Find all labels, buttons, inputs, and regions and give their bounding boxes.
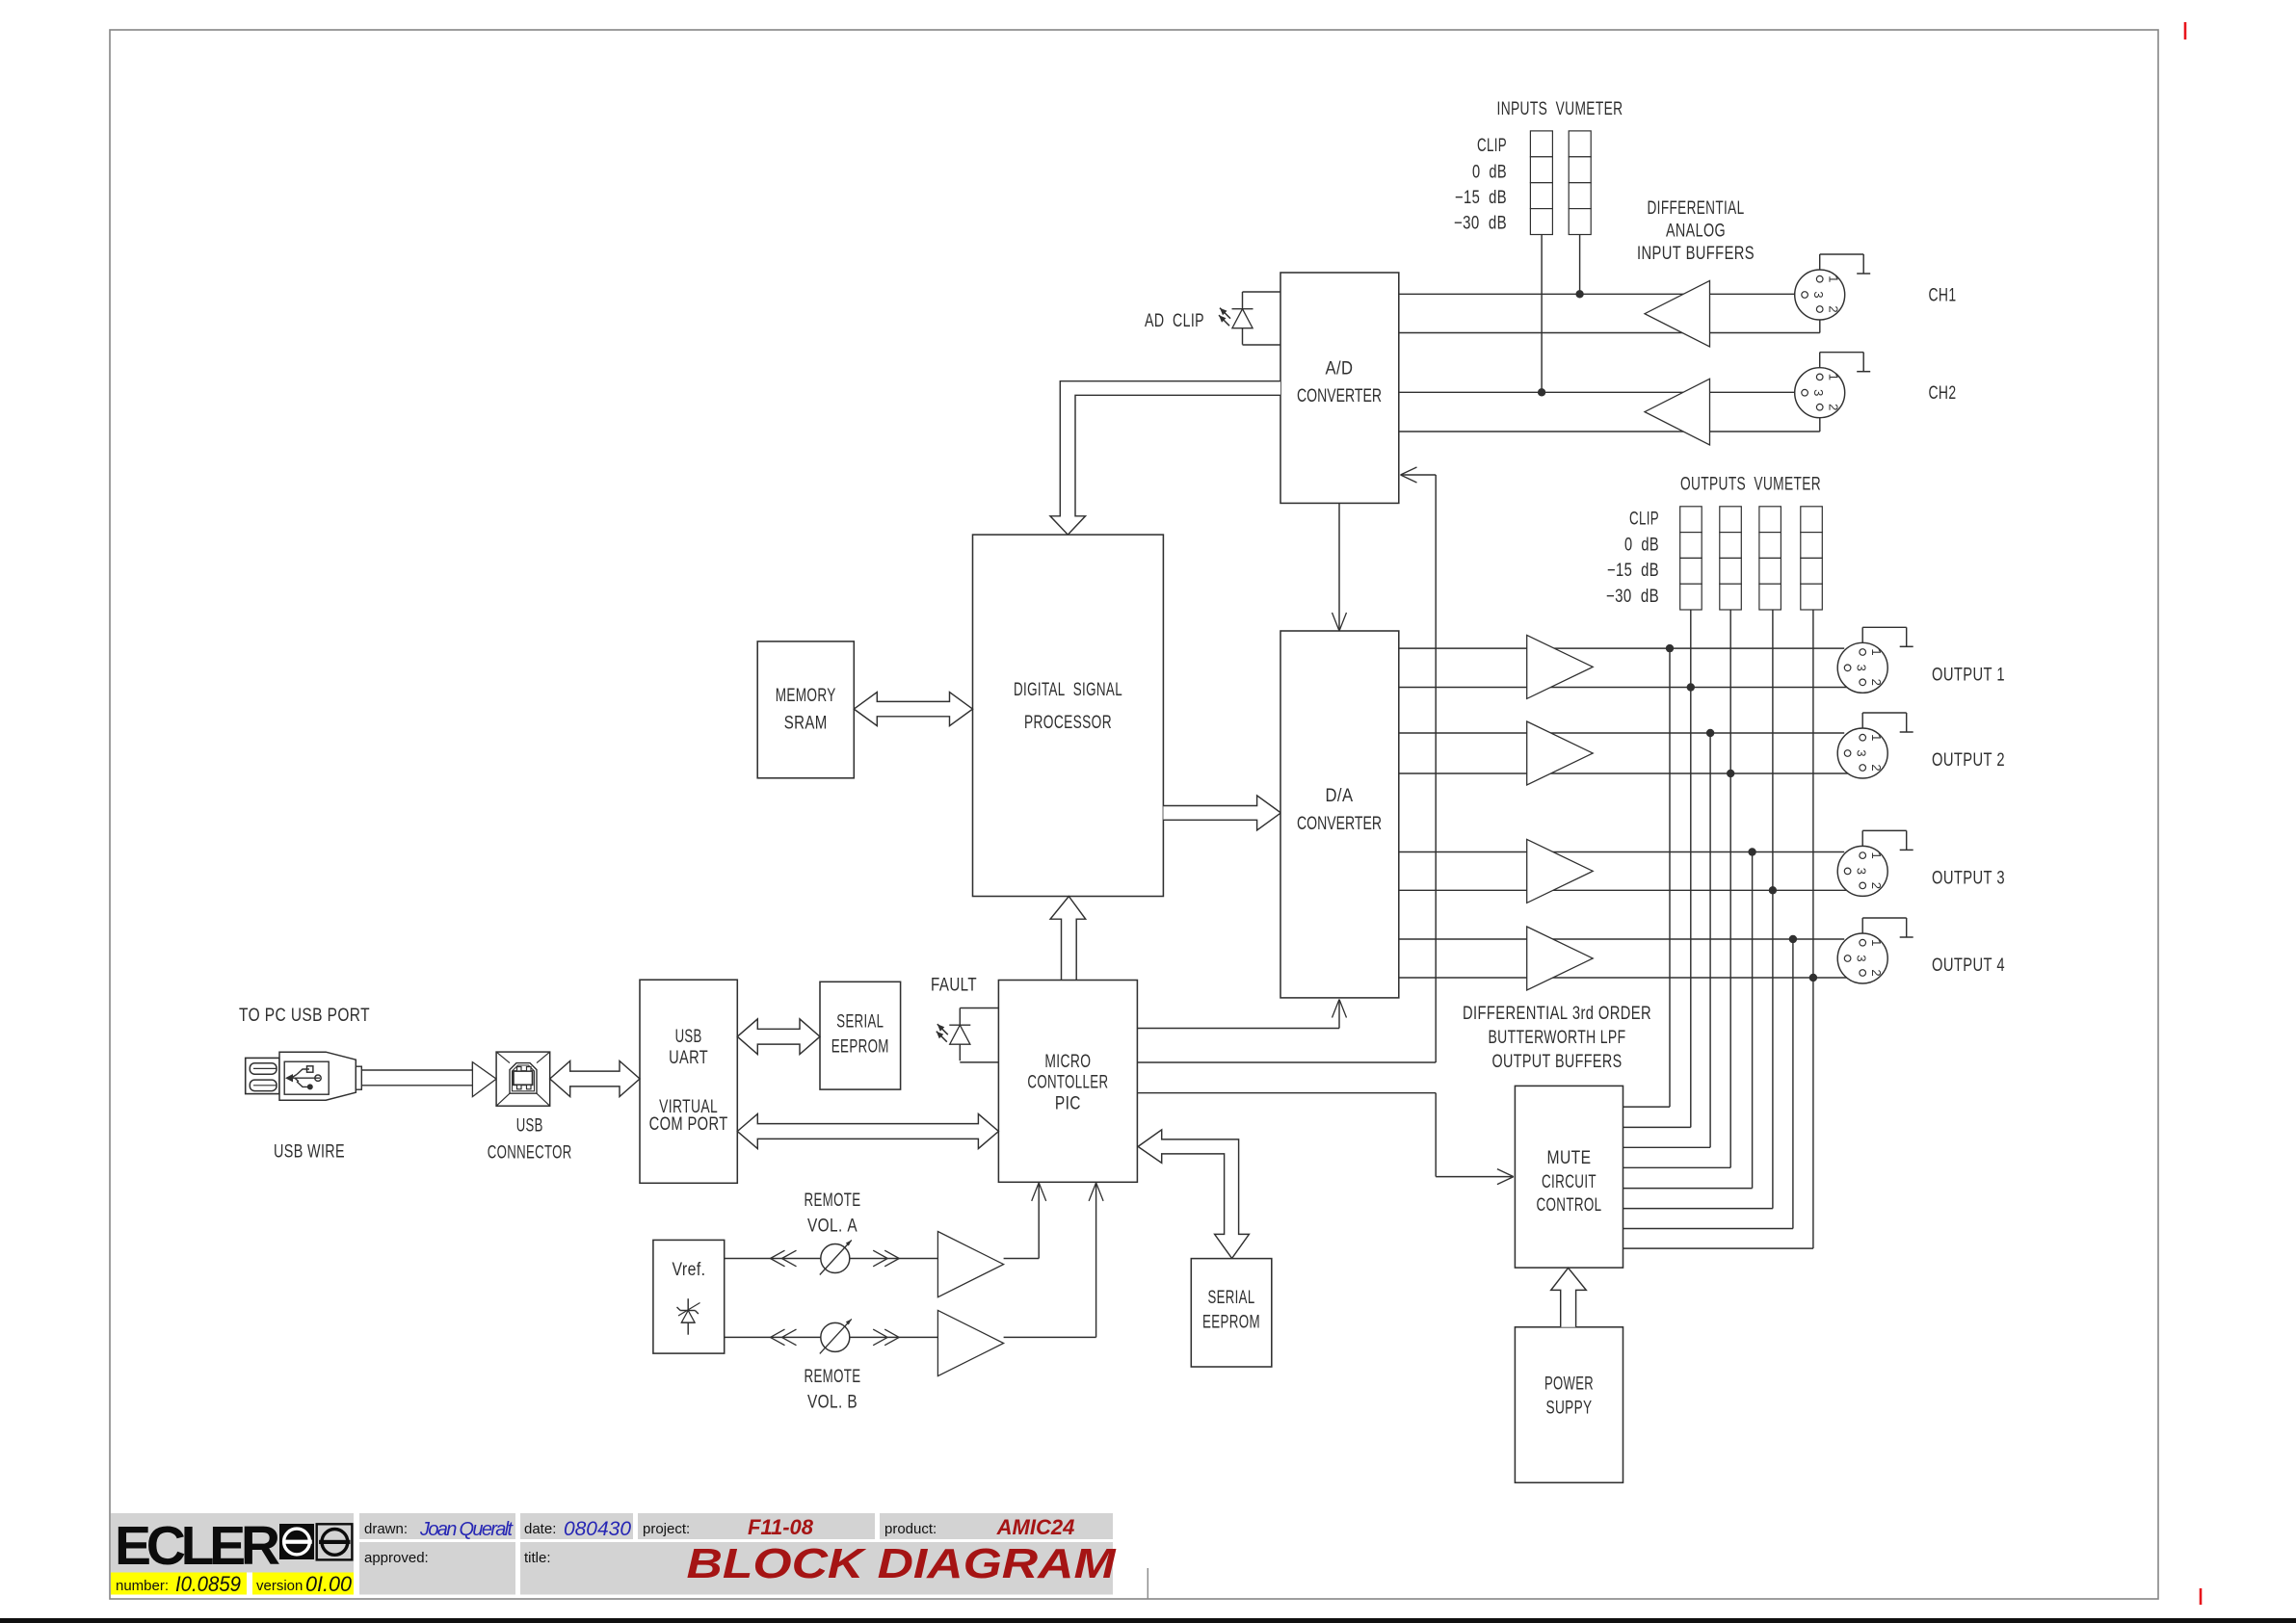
XLR connector OUTPUT 4 <box>1837 933 1887 983</box>
label OUTPUT 2 <box>1932 750 2005 771</box>
svg-text:OUTPUTS VUMETER: OUTPUTS VUMETER <box>1680 475 1821 495</box>
svg-text:1: 1 <box>1869 648 1884 655</box>
title block product cell <box>880 1513 1113 1539</box>
wire micro to A/D control <box>1137 1061 1436 1063</box>
XLR connector OUTPUT 1 <box>1837 642 1887 693</box>
svg-text:OUTPUT 1: OUTPUT 1 <box>1932 666 2005 686</box>
label FAULT <box>931 976 977 996</box>
svg-text:I0.0859: I0.0859 <box>175 1572 241 1596</box>
label REMOTE VOL. A <box>805 1191 861 1237</box>
XLR connector CH1 <box>1795 270 1845 320</box>
wire vumeter bar 2 down to mute block <box>1623 610 1731 1167</box>
wire CH1- (XLR pin2 to A/D) <box>1399 313 1820 333</box>
svg-text:2: 2 <box>1869 969 1884 976</box>
op-amp output buffer 4 <box>1527 927 1594 990</box>
svg-text:MUTE: MUTE <box>1547 1148 1592 1168</box>
svg-text:CLIP: CLIP <box>1477 136 1507 156</box>
USB B connector symbol <box>496 1052 550 1106</box>
registration mark bottom right (red) <box>2200 1588 2203 1605</box>
label OUTPUTS VUMETER <box>1680 475 1821 495</box>
svg-text:1: 1 <box>1869 734 1884 741</box>
svg-text:BLOCK DIAGRAM: BLOCK DIAGRAM <box>687 1540 1118 1587</box>
title block title cell <box>520 1540 1117 1595</box>
bus arrow power supply to mute (hollow up) <box>1551 1268 1587 1327</box>
svg-text:CH1: CH1 <box>1929 286 1957 306</box>
fold mark tick below title block <box>1147 1568 1148 1599</box>
svg-text:D/A: D/A <box>1326 786 1354 806</box>
junction node OUT2- vumeter tap <box>1727 770 1734 777</box>
svg-text:POWER: POWER <box>1544 1374 1594 1395</box>
wire mute tap 2 down to mute block <box>1623 733 1711 1147</box>
svg-text:CONNECTOR: CONNECTOR <box>488 1142 572 1163</box>
svg-text:VOL. A: VOL. A <box>807 1217 858 1237</box>
svg-text:CONVERTER: CONVERTER <box>1297 386 1382 406</box>
junction node OUT3+ mute tap <box>1748 848 1755 855</box>
wire OUT1+ (D/A to XLR pin3) <box>1399 647 1844 649</box>
svg-text:ECLER: ECLER <box>115 1515 280 1577</box>
wire OUT3+ (D/A to XLR pin3) <box>1399 851 1844 853</box>
bus arrow UART to serial EEPROM (double) <box>737 1019 820 1055</box>
wire A/D to D/A <box>1333 503 1347 631</box>
svg-text:REMOTE: REMOTE <box>805 1367 861 1387</box>
potentiometer remote vol B <box>820 1319 852 1353</box>
svg-text:title:: title: <box>524 1550 551 1566</box>
svg-text:SUPPY: SUPPY <box>1546 1399 1593 1419</box>
block A/D converter <box>1280 273 1399 503</box>
black strip at bottom edge <box>0 1618 2296 1623</box>
label OUTPUT 3 <box>1932 869 2005 889</box>
op-amp output buffer 1 <box>1527 635 1594 698</box>
junction node OUT4- vumeter tap <box>1809 974 1817 982</box>
ground OUTPUT 1 <box>1862 627 1913 646</box>
svg-text:OUTPUT BUFFERS: OUTPUT BUFFERS <box>1492 1052 1623 1072</box>
label CLIP (outputs) <box>1629 510 1659 530</box>
svg-text:date:: date: <box>524 1521 556 1537</box>
svg-text:1: 1 <box>1869 939 1884 946</box>
svg-text:VOL. B: VOL. B <box>807 1393 858 1413</box>
registration mark top right (red) <box>2184 22 2187 39</box>
bus arrow A/D to DSP (hollow elbow) <box>1050 381 1280 535</box>
svg-text:USB: USB <box>675 1027 702 1047</box>
svg-text:USB WIRE: USB WIRE <box>274 1141 345 1162</box>
svg-text:080430: 080430 <box>564 1518 631 1540</box>
title block project cell <box>638 1513 875 1539</box>
svg-text:2: 2 <box>1869 764 1884 771</box>
svg-text:MICRO: MICRO <box>1044 1052 1091 1072</box>
bus arrow virtual COM port to micro (double) <box>737 1114 998 1149</box>
svg-text:3: 3 <box>1855 665 1869 671</box>
svg-text:INPUT BUFFERS: INPUT BUFFERS <box>1637 244 1755 264</box>
block digital signal processor <box>973 535 1164 896</box>
label -30 dB (outputs) <box>1606 587 1659 607</box>
wire OUT1- (D/A to XLR pin2) <box>1399 686 1863 688</box>
label OUTPUT 1 <box>1932 666 2005 686</box>
wire micro to D/A (arrow into bottom) <box>1137 1000 1346 1029</box>
svg-text:OUTPUT 2: OUTPUT 2 <box>1932 750 2005 771</box>
chevrons wire B left <box>771 1329 797 1346</box>
ground OUTPUT 4 <box>1862 918 1913 937</box>
svg-text:BUTTERWORTH LPF: BUTTERWORTH LPF <box>1489 1028 1626 1048</box>
svg-text:DIFFERENTIAL 3rd ORDER: DIFFERENTIAL 3rd ORDER <box>1463 1004 1651 1024</box>
svg-text:DIFFERENTIAL: DIFFERENTIAL <box>1648 198 1745 219</box>
USB A plug (connector drawing) <box>246 1052 362 1100</box>
svg-text:drawn:: drawn: <box>364 1521 408 1537</box>
svg-text:FAULT: FAULT <box>931 976 977 996</box>
chevrons wire A right <box>873 1250 899 1267</box>
ground OUTPUT 2 <box>1862 713 1913 732</box>
label AD CLIP <box>1145 311 1204 331</box>
svg-text:2: 2 <box>1827 404 1841 410</box>
svg-text:3: 3 <box>1811 389 1826 396</box>
svg-text:version: version <box>256 1578 303 1594</box>
junction node OUT1+ mute tap <box>1666 644 1674 652</box>
bus arrow USB connector to UART (double) <box>550 1061 640 1097</box>
wire mute tap 4 down to mute block <box>1623 939 1793 1229</box>
potentiometer remote vol A <box>820 1241 852 1275</box>
svg-text:CONTOLLER: CONTOLLER <box>1027 1073 1108 1093</box>
svg-text:project:: project: <box>643 1521 690 1537</box>
svg-text:PIC: PIC <box>1055 1093 1081 1113</box>
svg-text:EEPROM: EEPROM <box>1202 1313 1260 1333</box>
title block approved cell <box>359 1542 515 1595</box>
wire Vref to amp A <box>725 1258 938 1260</box>
wire vumeter bar 1 down to mute block <box>1623 610 1691 1127</box>
svg-text:2: 2 <box>1869 679 1884 686</box>
wire amp B to micro <box>1004 1183 1104 1338</box>
wire OUT4+ (D/A to XLR pin3) <box>1399 938 1844 940</box>
svg-text:PROCESSOR: PROCESSOR <box>1024 713 1112 733</box>
label CH2 <box>1929 383 1957 404</box>
svg-text:2: 2 <box>1869 882 1884 889</box>
svg-text:F11-08: F11-08 <box>748 1515 814 1539</box>
wire micro to mute control <box>1137 1093 1514 1185</box>
svg-text:SRAM: SRAM <box>784 713 828 733</box>
block D/A converter <box>1280 631 1399 998</box>
label CH1 <box>1929 286 1957 306</box>
vumeter bar output 2 <box>1720 507 1742 610</box>
svg-text:Joan Queralt: Joan Queralt <box>419 1519 514 1540</box>
XLR connector CH2 <box>1795 368 1845 418</box>
svg-text:0 dB: 0 dB <box>1472 162 1507 182</box>
wire vumeter bar 4 down to mute block <box>1623 610 1813 1248</box>
title block version cell (yellow) <box>252 1572 354 1596</box>
USB cable (to connector, hollow arrow) <box>361 1062 496 1097</box>
wire OUT3- (D/A to XLR pin2) <box>1399 889 1863 891</box>
label TO PC USB PORT <box>239 1006 370 1026</box>
label 0 dB (outputs) <box>1624 535 1659 555</box>
svg-text:0 dB: 0 dB <box>1624 535 1659 555</box>
svg-text:−15 dB: −15 dB <box>1607 561 1659 581</box>
svg-text:3: 3 <box>1855 868 1869 875</box>
LED FAULT with bracket <box>937 1008 999 1062</box>
wire amp A to micro <box>1004 1183 1046 1259</box>
block USB UART virtual COM port <box>640 980 737 1183</box>
svg-text:UART: UART <box>669 1048 708 1068</box>
svg-text:DIGITAL SIGNAL: DIGITAL SIGNAL <box>1014 680 1122 700</box>
svg-text:USB: USB <box>516 1115 543 1136</box>
zener diode Vref <box>653 1240 725 1353</box>
svg-text:3: 3 <box>1855 955 1869 961</box>
label USB CONNECTOR <box>488 1115 572 1163</box>
label DIFFERENTIAL ANALOG INPUT BUFFERS <box>1637 198 1755 264</box>
svg-text:product:: product: <box>884 1521 937 1537</box>
svg-text:3: 3 <box>1855 749 1869 756</box>
op-amp output buffer 3 <box>1527 839 1594 903</box>
svg-text:CIRCUIT: CIRCUIT <box>1542 1172 1597 1192</box>
ground OUTPUT 3 <box>1862 830 1913 850</box>
vumeter bar input 1 <box>1530 131 1552 235</box>
svg-text:−30 dB: −30 dB <box>1454 213 1507 233</box>
op-amp input buffer CH2 <box>1645 379 1710 445</box>
svg-text:COM PORT: COM PORT <box>649 1114 728 1135</box>
ground CH2 <box>1820 353 1871 372</box>
label USB WIRE <box>274 1141 345 1162</box>
wire OUT2+ (D/A to XLR pin3) <box>1399 732 1844 734</box>
svg-text:SERIAL: SERIAL <box>836 1011 884 1032</box>
title block number cell (yellow) <box>111 1572 247 1596</box>
op-amp remote A <box>937 1232 1003 1297</box>
label OUTPUT 4 <box>1932 955 2005 976</box>
svg-text:Vref.: Vref. <box>673 1260 706 1280</box>
title block drawn cell <box>359 1513 515 1540</box>
title block date cell <box>520 1513 633 1540</box>
svg-text:AD CLIP: AD CLIP <box>1145 311 1204 331</box>
wire vumeter tap to CH1+ <box>1575 234 1583 298</box>
op-amp remote B <box>937 1310 1003 1375</box>
label INPUTS VUMETER <box>1497 99 1623 119</box>
junction node OUT2+ mute tap <box>1706 729 1714 737</box>
wire CH1+ (XLR pin3 to A/D) <box>1399 293 1802 295</box>
wire CH2- (XLR pin2 to A/D) <box>1399 410 1820 432</box>
wire OUT2- (D/A to XLR pin2) <box>1399 771 1863 773</box>
block serial EEPROM 2 <box>1191 1259 1272 1367</box>
bus arrow micro to DSP (hollow up) <box>1050 897 1086 981</box>
svg-text:A/D: A/D <box>1326 359 1354 380</box>
XLR connector OUTPUT 2 <box>1837 728 1887 778</box>
junction node OUT4+ mute tap <box>1789 935 1797 943</box>
junction node OUT3- vumeter tap <box>1769 886 1777 894</box>
svg-text:MEMORY: MEMORY <box>776 686 836 706</box>
svg-text:REMOTE: REMOTE <box>805 1191 861 1211</box>
junction node OUT1- vumeter tap <box>1687 683 1695 691</box>
bus arrow micro to serial EEPROM 2 (hollow elbow) <box>1138 1130 1249 1259</box>
wire Vref to amp B <box>725 1336 938 1338</box>
svg-text:−15 dB: −15 dB <box>1455 188 1507 208</box>
label REMOTE VOL. B <box>805 1367 861 1413</box>
svg-text:CLIP: CLIP <box>1629 510 1659 530</box>
bus arrow DSP to D/A <box>1163 796 1280 830</box>
svg-text:approved:: approved: <box>364 1550 429 1566</box>
label -15 dB (inputs) <box>1455 188 1507 208</box>
svg-text:EEPROM: EEPROM <box>831 1036 889 1057</box>
svg-text:SERIAL: SERIAL <box>1208 1288 1255 1308</box>
wire vumeter bar 3 down to mute block <box>1623 610 1773 1209</box>
svg-text:CONVERTER: CONVERTER <box>1297 814 1382 834</box>
svg-text:TO PC USB PORT: TO PC USB PORT <box>239 1006 370 1026</box>
svg-text:1: 1 <box>1869 851 1884 858</box>
label DIFFERENTIAL 3rd ORDER BUTTERWORTH LPF OUTPUT BUFFERS <box>1463 1004 1651 1072</box>
vumeter bar input 2 <box>1569 131 1591 235</box>
wire mute tap 1 down to mute block <box>1623 648 1671 1107</box>
svg-text:3: 3 <box>1811 291 1826 298</box>
block power supply <box>1515 1327 1623 1483</box>
XLR connector OUTPUT 3 <box>1837 846 1887 896</box>
block memory SRAM <box>757 641 854 778</box>
svg-text:OUTPUT 3: OUTPUT 3 <box>1932 869 2005 889</box>
wire vumeter tap to CH2+ <box>1538 234 1545 396</box>
label -30 dB (inputs) <box>1454 213 1507 233</box>
ground CH1 <box>1820 254 1871 274</box>
wire micro to A/D control (arrow into right edge) <box>1401 467 1437 1062</box>
wire mute tap 3 down to mute block <box>1623 852 1753 1189</box>
svg-text:INPUTS VUMETER: INPUTS VUMETER <box>1497 99 1623 119</box>
svg-text:0I.00: 0I.00 <box>305 1572 353 1596</box>
vumeter bar output 1 <box>1680 507 1702 610</box>
svg-text:AMIC24: AMIC24 <box>996 1515 1075 1539</box>
title block ECLER logo cell <box>111 1513 354 1577</box>
vumeter bar output 3 <box>1759 507 1781 610</box>
svg-text:2: 2 <box>1827 305 1841 312</box>
block micro controller PIC <box>998 981 1137 1183</box>
wire CH2+ (XLR pin3 to A/D) <box>1399 391 1802 393</box>
svg-text:CH2: CH2 <box>1929 383 1957 404</box>
chevrons wire B right <box>873 1329 899 1346</box>
LED AD CLIP with bracket <box>1219 292 1280 345</box>
svg-text:number:: number: <box>116 1578 169 1594</box>
svg-text:1: 1 <box>1827 275 1841 282</box>
vumeter bar output 4 <box>1801 507 1823 610</box>
svg-text:1: 1 <box>1827 374 1841 380</box>
svg-text:CONTROL: CONTROL <box>1537 1195 1602 1216</box>
wire OUT4- (D/A to XLR pin2) <box>1399 976 1863 978</box>
label 0 dB (inputs) <box>1472 162 1507 182</box>
chevrons wire A left <box>771 1250 797 1267</box>
op-amp input buffer CH1 <box>1645 280 1710 347</box>
block mute circuit control <box>1515 1086 1623 1268</box>
block serial EEPROM (USB) <box>820 982 901 1089</box>
svg-text:OUTPUT 4: OUTPUT 4 <box>1932 955 2005 976</box>
bus arrow memory SRAM to DSP (double) <box>854 693 972 726</box>
label CLIP (inputs) <box>1477 136 1507 156</box>
op-amp output buffer 2 <box>1527 721 1594 785</box>
label -15 dB (outputs) <box>1607 561 1659 581</box>
svg-text:−30 dB: −30 dB <box>1606 587 1659 607</box>
svg-text:ANALOG: ANALOG <box>1666 222 1726 242</box>
